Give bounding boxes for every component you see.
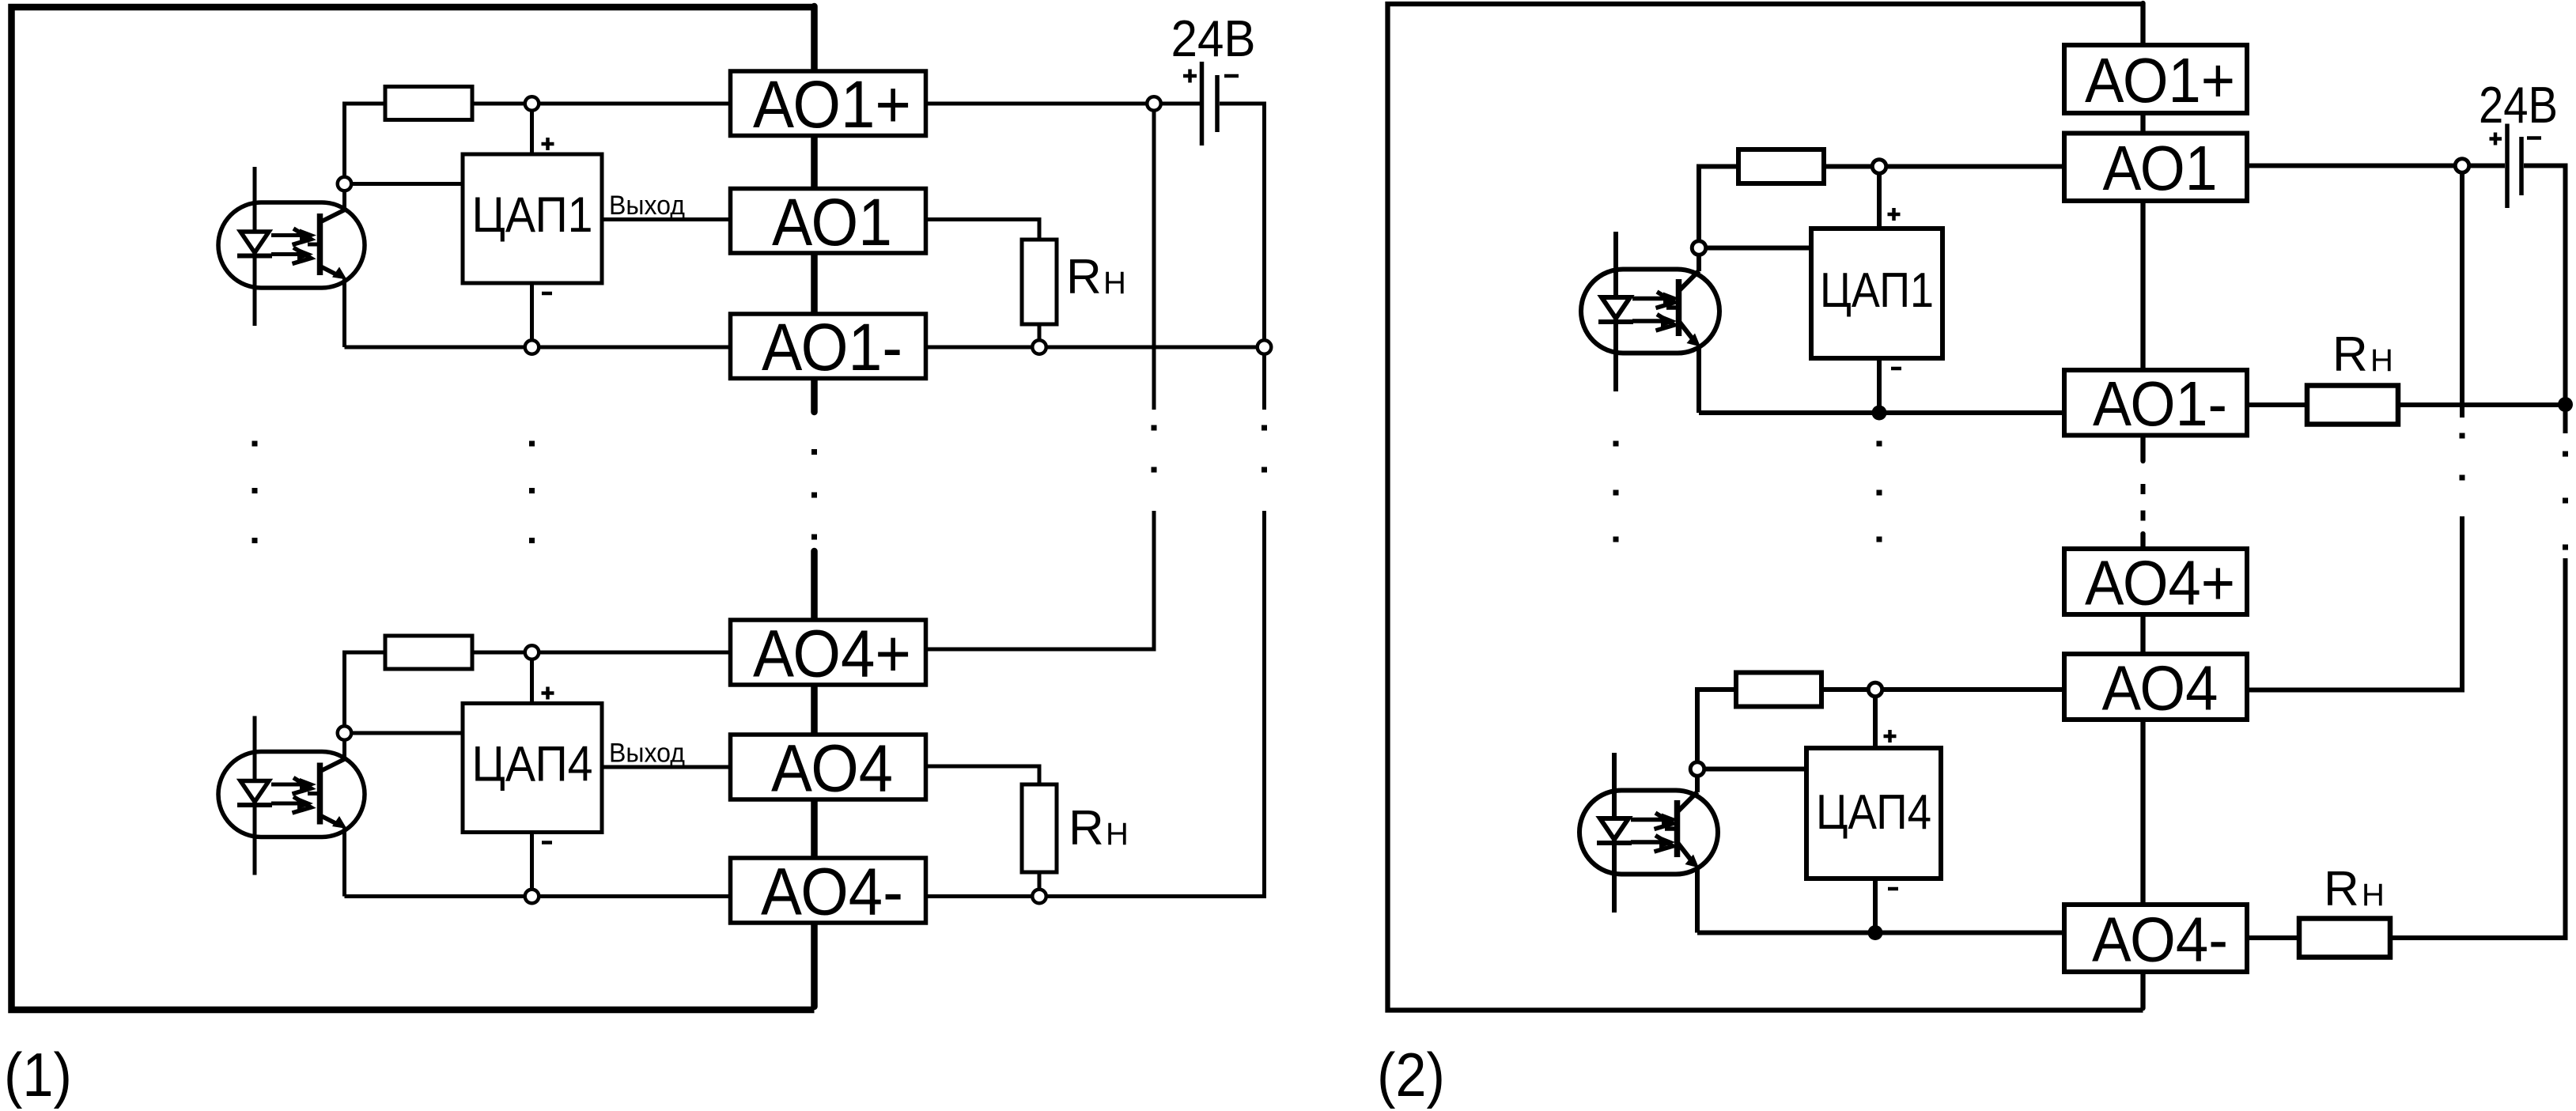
light arrow 2 U1	[271, 252, 300, 256]
light arrow 2 U1	[1632, 319, 1661, 323]
node battery plus junction channel 1	[1147, 96, 1161, 111]
bus continuation dots	[811, 449, 817, 540]
node DAC1 minus junction (solid)	[1872, 406, 1887, 421]
battery plus sign	[1183, 70, 1197, 83]
resistor (feedback, channel 4)	[1736, 673, 1821, 707]
svg-text:АО4+: АО4+	[753, 617, 911, 691]
terminal box AO4-	[731, 858, 926, 923]
wire DAC4 plus pin	[1873, 697, 1878, 748]
wire AO1- row rail	[345, 346, 1265, 350]
svg-text:АО1+: АО1+	[2085, 45, 2235, 115]
LED triangle U4	[1600, 818, 1628, 840]
transistor Q1 base bar	[317, 214, 323, 275]
wire resistor right to AO1	[1824, 164, 2064, 169]
LED triangle U4	[240, 781, 269, 803]
wire AO4 to load resistor	[926, 766, 1040, 784]
wire load resistor to battery minus column	[2398, 402, 2566, 407]
wire DAC1 minus pin	[1877, 358, 1882, 413]
wire DAC4 minus pin	[1873, 879, 1878, 933]
load resistor Rn channel 1	[1022, 240, 1057, 324]
optocoupler U4 body	[1579, 791, 1718, 875]
optocoupler U1 body	[1581, 270, 1719, 353]
load resistor Rn channel 4	[2299, 919, 2390, 958]
svg-text:Н: Н	[2362, 878, 2385, 913]
continuation dots DAC pin column	[529, 441, 535, 544]
wire load resistor 4 bottom lead	[1038, 872, 1042, 890]
node resistor / DAC1 plus junction	[1872, 160, 1886, 174]
LED lead wire U1	[1613, 232, 1618, 391]
wire resistor right to AO4+	[472, 651, 731, 655]
wire DAC1 plus pin	[530, 111, 534, 154]
wire DAC4 plus pin	[530, 659, 534, 704]
svg-text:ЦАП4: ЦАП4	[1816, 785, 1931, 840]
terminal bus segment upper	[2140, 3, 2145, 461]
wire resistor left to collector column	[1697, 690, 1736, 762]
wire resistor right to AO4	[1821, 687, 2064, 692]
terminal box AO4	[2064, 654, 2247, 720]
light arrow 1 U4	[271, 783, 302, 787]
wire DAC1 plus pin	[1877, 173, 1882, 229]
node collector junction channel 1	[1692, 241, 1706, 255]
svg-text:R: R	[2324, 862, 2359, 916]
terminal box AO1-	[731, 314, 926, 379]
terminal bus segment lower	[2140, 534, 2145, 1008]
transistor Q1 emitter lead	[320, 266, 339, 276]
wire DAC1 minus pin	[530, 283, 534, 340]
op block DAC1 (ЦАП1)	[1811, 229, 1942, 358]
terminal box AO4-	[2064, 905, 2247, 972]
terminal bus segment lower	[811, 551, 818, 1007]
svg-text:АО4+: АО4+	[2085, 548, 2235, 618]
terminal box AO1+	[731, 71, 926, 136]
transistor Q4 base stub	[308, 792, 320, 795]
transistor Q4 base bar	[317, 763, 323, 825]
wire battery minus column to load resistor 4	[2390, 558, 2566, 938]
op block DAC1 (ЦАП1)	[463, 154, 602, 283]
continuation dots supply plus column	[1152, 425, 1157, 473]
wire node to DAC4 input	[1704, 767, 1806, 772]
svg-text:R: R	[2332, 327, 2368, 382]
battery short plate (-)	[1215, 75, 1220, 132]
continuation dots supply minus column	[1262, 425, 1267, 473]
node DAC4 minus junction (solid)	[1868, 925, 1883, 940]
terminal box AO1	[731, 189, 926, 254]
node resistor / DAC4 plus junction	[525, 645, 539, 659]
transistor Q1 base stub	[308, 243, 320, 247]
wire battery minus to corner	[1220, 104, 1265, 341]
wire emitter to AO4- rail	[342, 828, 346, 897]
wire battery plus column upper	[2460, 172, 2464, 418]
wire AO4- row to load resistor 4	[2247, 935, 2299, 940]
wire resistor left to collector column	[345, 652, 386, 726]
LED lead wire U4	[253, 716, 257, 875]
wire vertical supply minus column	[1262, 355, 1266, 410]
wire AO1 to load resistor	[926, 220, 1040, 240]
wire node to DAC1 input	[1706, 246, 1811, 251]
svg-text:АО1-: АО1-	[762, 310, 902, 384]
transistor Q4 base stub	[1665, 826, 1678, 831]
wire DAC4 output	[602, 765, 731, 769]
light arrow 1 U1	[271, 233, 302, 237]
load resistor Rn channel 1	[2307, 386, 2398, 425]
transistor Q4 collector lead	[1678, 792, 1698, 813]
terminal box AO1	[2064, 134, 2247, 202]
battery short plate (-)	[2519, 137, 2524, 195]
op block DAC4 (ЦАП4)	[1806, 748, 1941, 879]
LED cathode bar U4	[237, 803, 272, 807]
node DAC4 minus junction	[525, 890, 539, 904]
svg-text:(2): (2)	[1377, 1040, 1445, 1109]
continuation dots LED column	[1613, 441, 1619, 542]
svg-text:АО1: АО1	[2103, 133, 2218, 203]
svg-text:АО1-: АО1-	[2093, 368, 2227, 439]
transistor Q1 base stub	[1666, 305, 1679, 310]
transistor Q4 emitter arrowhead	[1685, 855, 1700, 868]
transistor Q1 emitter arrowhead	[332, 267, 347, 280]
bus continuation dashes	[2141, 484, 2146, 521]
wire AO4- row rail left	[345, 894, 731, 898]
wire load resistor bottom lead	[1038, 324, 1042, 341]
node resistor / DAC4 plus junction	[1868, 682, 1882, 697]
pin label + DAC4	[542, 687, 554, 700]
wire supply minus column to AO4- rail	[926, 511, 1265, 897]
transistor Q1 emitter lead	[1679, 321, 1695, 341]
svg-text:АО4: АО4	[771, 731, 893, 806]
terminal bus segment upper	[811, 6, 818, 412]
pin label + DAC1	[542, 138, 554, 150]
node battery minus junction AO1- rail	[1258, 340, 1272, 354]
transistor Q1 base bar	[1676, 279, 1682, 336]
wire AO1+ row rail	[472, 102, 1200, 106]
LED lead wire U1	[253, 167, 257, 326]
wire vertical supply plus column	[1152, 104, 1156, 410]
continuation dots LED column	[252, 441, 258, 544]
wire AO1 output row	[602, 217, 731, 221]
svg-text:АО4-: АО4-	[761, 855, 903, 929]
wire node to transistor collector	[342, 191, 346, 210]
LED cathode bar U1	[237, 254, 272, 259]
svg-text:R: R	[1069, 801, 1104, 856]
node resistor / DAC1 plus junction	[525, 96, 539, 111]
svg-text:R: R	[1066, 250, 1102, 304]
resistor (feedback, channel 4)	[385, 636, 472, 669]
pin label - DAC1	[1891, 367, 1901, 371]
terminal box AO1+	[2064, 45, 2247, 113]
wire emitter to AO1- row	[1697, 346, 1701, 413]
node collector junction channel 4	[338, 726, 352, 740]
svg-text:АО4: АО4	[2102, 653, 2219, 724]
transistor Q1 collector lead	[320, 210, 345, 223]
light arrow 2 U4	[271, 802, 300, 806]
resistor (feedback, channel 1)	[1738, 149, 1824, 183]
svg-text:(1): (1)	[4, 1040, 72, 1109]
svg-text:АО1+: АО1+	[753, 67, 911, 142]
LED cathode bar U1	[1598, 319, 1633, 324]
transistor Q4 collector lead	[320, 759, 345, 772]
svg-text:ЦАП1: ЦАП1	[472, 187, 593, 243]
optocoupler U1 body	[218, 202, 365, 288]
pin label - DAC4	[1888, 887, 1898, 891]
node load resistor to AO1- rail	[1032, 340, 1046, 354]
svg-text:ЦАП1: ЦАП1	[1820, 263, 1934, 318]
wire resistor left to collector column	[345, 104, 386, 177]
module frame border (2)	[1388, 4, 2143, 1011]
transistor Q1 collector lead	[1679, 271, 1700, 292]
wire node to transistor collector	[342, 740, 346, 760]
wire emitter to AO1- rail	[342, 278, 346, 347]
svg-text:АО4-: АО4-	[2092, 905, 2228, 975]
battery minus sign	[1224, 74, 1239, 78]
light arrow 1 U1	[1632, 297, 1665, 301]
pin label - DAC4	[542, 841, 552, 845]
wire battery minus to right column	[2524, 166, 2566, 434]
load resistor Rn channel 4	[1022, 784, 1057, 872]
transistor Q4 base bar	[1674, 800, 1681, 857]
svg-text:Выход: Выход	[609, 739, 685, 769]
battery 24V circuit 2	[2479, 76, 2558, 208]
transistor Q4 emitter lead	[1678, 842, 1693, 862]
node battery plus junction	[2455, 159, 2469, 173]
terminal box AO4+	[731, 620, 926, 685]
light arrow 2 U4	[1631, 840, 1659, 845]
wire node to transistor collector	[1695, 776, 1700, 792]
LED triangle U1	[1602, 297, 1630, 319]
wire AO4- bottom row	[1697, 931, 2066, 935]
transistor Q1 emitter arrowhead	[1687, 334, 1701, 347]
node collector junction channel 4	[1690, 762, 1704, 777]
wire node to DAC1 input	[351, 182, 463, 186]
pin label + DAC1	[1888, 208, 1901, 221]
wire emitter to AO4- row	[1695, 867, 1700, 933]
battery minus sign	[2527, 136, 2541, 140]
wire resistor left to collector column	[1699, 167, 1738, 241]
optocoupler U4 body	[218, 752, 365, 837]
pin label + DAC4	[1884, 730, 1897, 743]
svg-text:ЦАП4: ЦАП4	[472, 737, 593, 792]
node DAC1 minus junction	[525, 340, 539, 354]
wire supply plus column to AO4+	[926, 511, 1155, 649]
battery plus sign	[2490, 133, 2502, 145]
wire DAC4 minus pin	[530, 833, 534, 890]
LED cathode bar U4	[1597, 841, 1632, 845]
svg-text:Выход: Выход	[609, 191, 685, 221]
module frame border (1)	[12, 7, 815, 1010]
node load resistor 4 to AO4- rail	[1032, 890, 1046, 904]
svg-text:24В: 24В	[1171, 9, 1256, 67]
svg-text:АО1: АО1	[772, 185, 892, 259]
LED triangle U1	[240, 232, 269, 253]
svg-text:Н: Н	[1106, 817, 1129, 852]
battery long plate (+)	[2505, 124, 2510, 209]
node collector junction channel 1	[338, 177, 352, 191]
terminal box AO4+	[2064, 549, 2247, 614]
light arrow 1 U4	[1631, 818, 1663, 822]
continuation dots battery plus column	[2460, 433, 2465, 481]
transistor Q4 emitter lead	[320, 815, 339, 825]
wire AO1- row to load resistor	[2247, 402, 2307, 407]
node load resistor minus junction	[2558, 397, 2573, 412]
resistor (feedback, channel 1)	[385, 87, 472, 120]
wire AO1- bottom row	[1699, 410, 2066, 415]
transistor Q4 emitter arrowhead	[332, 816, 347, 829]
wire node to transistor collector	[1697, 255, 1701, 271]
continuation dots battery minus column	[2563, 452, 2568, 550]
svg-text:Н: Н	[2370, 343, 2393, 378]
svg-text:24В: 24В	[2479, 76, 2558, 134]
LED lead wire U4	[1612, 753, 1617, 913]
wire battery plus column to AO4 row	[2247, 516, 2462, 690]
battery long plate (+)	[1200, 62, 1205, 145]
svg-text:Н: Н	[1103, 266, 1126, 300]
terminal box AO4	[731, 735, 926, 799]
battery 24V circuit 1	[1171, 9, 1256, 145]
wire AO1 row to battery plus	[2247, 164, 2505, 168]
wire node to DAC4 input	[351, 731, 463, 735]
terminal box AO1-	[2064, 370, 2247, 436]
continuation dots DAC pin column	[1877, 441, 1882, 542]
op block DAC4 (ЦАП4)	[463, 704, 602, 833]
pin label - DAC1	[542, 292, 552, 296]
